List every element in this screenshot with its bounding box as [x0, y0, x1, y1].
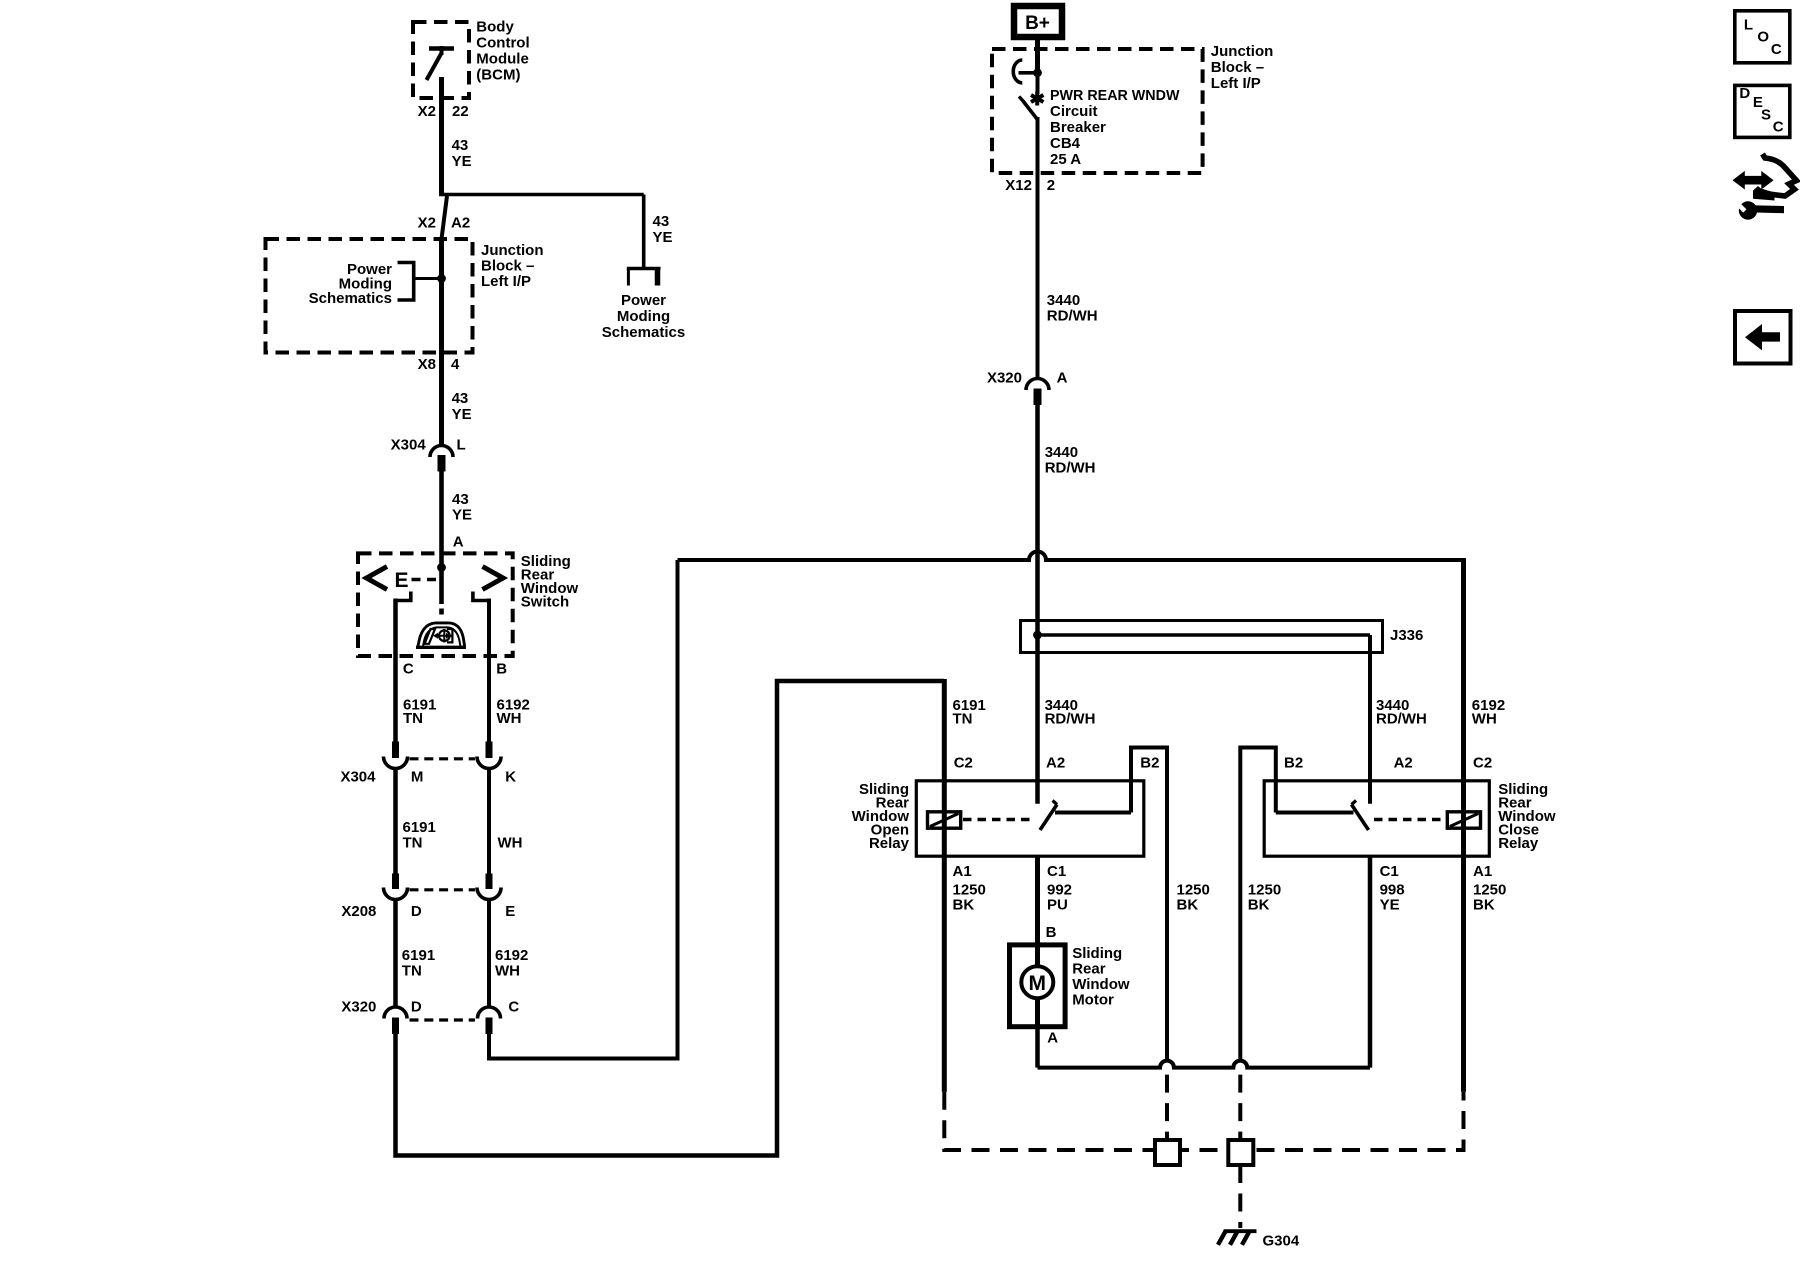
svg-text:TN: TN: [403, 710, 423, 727]
svg-text:Body: Body: [476, 19, 514, 36]
svg-text:D: D: [1739, 85, 1750, 102]
svg-text:A: A: [1047, 1030, 1058, 1047]
svg-text:Moding: Moding: [617, 308, 670, 325]
svg-text:B2: B2: [1284, 755, 1303, 772]
svg-text:YE: YE: [452, 153, 472, 170]
svg-text:M: M: [411, 769, 424, 786]
svg-text:M: M: [1029, 972, 1047, 995]
svg-text:C: C: [403, 661, 414, 678]
svg-text:C: C: [1771, 41, 1782, 58]
svg-text:4: 4: [451, 356, 460, 373]
svg-text:S: S: [1761, 107, 1771, 124]
svg-text:22: 22: [452, 103, 469, 120]
svg-text:C: C: [1773, 118, 1784, 135]
svg-text:Circuit: Circuit: [1050, 103, 1098, 120]
svg-text:Module: Module: [476, 51, 529, 68]
svg-text:L: L: [1744, 17, 1753, 34]
svg-text:PWR REAR WNDW: PWR REAR WNDW: [1050, 88, 1180, 104]
svg-text:Schematics: Schematics: [602, 324, 685, 341]
svg-text:Window: Window: [1072, 976, 1130, 993]
svg-text:X320: X320: [987, 370, 1022, 387]
svg-text:X304: X304: [340, 769, 376, 786]
svg-text:Junction: Junction: [1211, 43, 1274, 60]
svg-text:O: O: [1757, 28, 1769, 45]
svg-text:BK: BK: [953, 897, 975, 914]
svg-text:X2: X2: [418, 103, 436, 120]
svg-text:A1: A1: [1473, 863, 1492, 880]
svg-text:X304: X304: [391, 437, 427, 454]
svg-text:25 A: 25 A: [1050, 151, 1081, 168]
svg-text:Block –: Block –: [481, 258, 534, 275]
svg-text:TN: TN: [402, 963, 422, 980]
svg-text:2: 2: [1047, 177, 1055, 194]
svg-text:YE: YE: [653, 229, 673, 246]
svg-text:B2: B2: [1140, 755, 1159, 772]
svg-text:C1: C1: [1380, 863, 1399, 880]
svg-text:C2: C2: [954, 755, 973, 772]
svg-text:X208: X208: [341, 903, 376, 920]
svg-text:BK: BK: [1248, 897, 1270, 914]
svg-text:C1: C1: [1047, 863, 1066, 880]
svg-text:6192: 6192: [495, 947, 528, 964]
svg-text:CB4: CB4: [1050, 135, 1081, 152]
svg-text:Power: Power: [621, 292, 666, 309]
svg-text:WH: WH: [498, 835, 523, 852]
svg-text:L: L: [457, 437, 466, 454]
svg-text:43: 43: [452, 390, 469, 407]
svg-text:G304: G304: [1263, 1232, 1300, 1249]
svg-text:E: E: [505, 903, 515, 920]
svg-text:43: 43: [452, 137, 469, 154]
svg-text:C2: C2: [1473, 755, 1492, 772]
svg-text:B: B: [496, 661, 507, 678]
svg-text:Breaker: Breaker: [1050, 119, 1106, 136]
svg-text:RD/WH: RD/WH: [1045, 460, 1096, 477]
svg-text:E: E: [395, 569, 409, 592]
svg-text:Motor: Motor: [1072, 992, 1114, 1009]
svg-text:WH: WH: [497, 710, 522, 727]
svg-text:Switch: Switch: [521, 594, 569, 611]
svg-text:BK: BK: [1177, 897, 1199, 914]
svg-text:6191: 6191: [403, 819, 436, 836]
svg-text:(BCM): (BCM): [476, 67, 520, 84]
svg-text:X8: X8: [418, 356, 436, 373]
svg-text:Junction: Junction: [481, 242, 544, 259]
svg-text:C: C: [508, 999, 519, 1016]
svg-text:TN: TN: [953, 711, 973, 728]
svg-text:A: A: [453, 534, 464, 551]
svg-text:Left I/P: Left I/P: [481, 273, 531, 290]
svg-text:A2: A2: [451, 215, 470, 232]
svg-text:X2: X2: [418, 215, 436, 232]
svg-text:X320: X320: [341, 999, 376, 1016]
svg-text:BK: BK: [1473, 897, 1495, 914]
svg-text:Schematics: Schematics: [309, 290, 392, 307]
svg-text:A1: A1: [953, 863, 972, 880]
svg-text:D: D: [411, 903, 422, 920]
svg-text:Control: Control: [476, 35, 529, 52]
svg-text:PU: PU: [1047, 897, 1068, 914]
svg-text:Sliding: Sliding: [1072, 945, 1122, 962]
svg-text:Relay: Relay: [1498, 835, 1539, 852]
svg-text:A2: A2: [1046, 755, 1065, 772]
svg-text:YE: YE: [1380, 897, 1400, 914]
svg-text:RD/WH: RD/WH: [1045, 711, 1096, 728]
svg-text:YE: YE: [452, 507, 472, 524]
svg-text:X12: X12: [1005, 177, 1032, 194]
svg-text:TN: TN: [403, 835, 423, 852]
svg-text:43: 43: [653, 213, 670, 230]
svg-text:B: B: [1046, 924, 1057, 941]
svg-text:RD/WH: RD/WH: [1047, 308, 1098, 325]
svg-text:J336: J336: [1390, 627, 1423, 644]
svg-text:3440: 3440: [1047, 292, 1080, 309]
svg-text:Rear: Rear: [1072, 961, 1106, 978]
svg-text:Left I/P: Left I/P: [1211, 75, 1261, 92]
svg-text:K: K: [505, 769, 516, 786]
svg-text:A: A: [1057, 370, 1068, 387]
svg-text:B+: B+: [1025, 13, 1050, 34]
svg-text:43: 43: [452, 491, 469, 508]
svg-text:Relay: Relay: [869, 835, 910, 852]
svg-text:WH: WH: [1472, 711, 1497, 728]
svg-text:A2: A2: [1394, 755, 1413, 772]
svg-text:WH: WH: [495, 963, 520, 980]
svg-text:D: D: [411, 999, 422, 1016]
svg-text:6191: 6191: [402, 947, 435, 964]
svg-text:3440: 3440: [1045, 444, 1078, 461]
svg-text:RD/WH: RD/WH: [1376, 711, 1427, 728]
svg-text:Block –: Block –: [1211, 59, 1264, 76]
svg-text:YE: YE: [452, 406, 472, 423]
